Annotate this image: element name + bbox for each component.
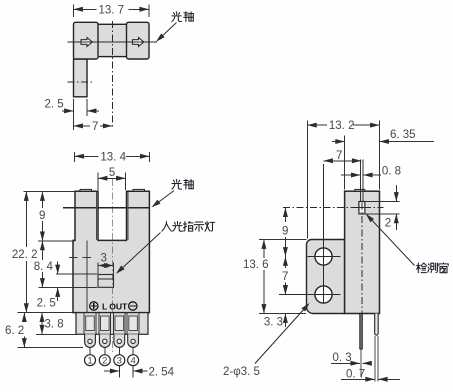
svg-text:2-φ3. 5: 2-φ3. 5 — [223, 366, 260, 378]
svg-text:2: 2 — [102, 356, 107, 367]
svg-text:13. 4: 13. 4 — [100, 151, 126, 163]
svg-text:2. 5: 2. 5 — [37, 297, 56, 309]
svg-text:3. 3: 3. 3 — [264, 317, 283, 329]
svg-text:13. 6: 13. 6 — [243, 259, 269, 271]
svg-text:9: 9 — [39, 210, 45, 222]
svg-text:0. 7: 0. 7 — [346, 368, 365, 380]
svg-text:0. 8: 0. 8 — [382, 166, 401, 178]
svg-text:3. 8: 3. 8 — [45, 318, 64, 330]
svg-text:7: 7 — [336, 150, 342, 162]
svg-text:5: 5 — [109, 167, 115, 179]
svg-text:22. 2: 22. 2 — [12, 249, 38, 261]
svg-text:3: 3 — [117, 356, 122, 367]
svg-text:0. 3: 0. 3 — [333, 352, 352, 364]
svg-text:6. 35: 6. 35 — [390, 129, 416, 141]
svg-text:8. 4: 8. 4 — [34, 261, 54, 273]
svg-text:2: 2 — [385, 217, 391, 229]
svg-text:2. 54: 2. 54 — [149, 366, 175, 378]
svg-text:3: 3 — [101, 253, 107, 265]
svg-text:L OUT: L OUT — [102, 301, 128, 311]
svg-text:9: 9 — [282, 225, 288, 237]
svg-text:6. 2: 6. 2 — [5, 325, 24, 337]
svg-text:7: 7 — [282, 271, 288, 283]
svg-text:4: 4 — [130, 356, 135, 367]
svg-text:7: 7 — [92, 121, 98, 133]
svg-text:13. 2: 13. 2 — [329, 120, 355, 132]
svg-text:13. 7: 13. 7 — [99, 4, 125, 16]
svg-text:2. 5: 2. 5 — [45, 99, 64, 111]
svg-text:1: 1 — [87, 356, 92, 367]
